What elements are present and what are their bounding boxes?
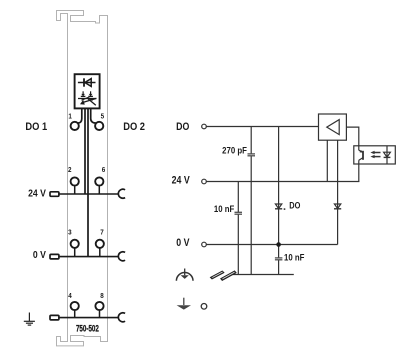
- terminal 2: [71, 177, 79, 185]
- branch B: DO to shield, 270pF: [250, 127, 252, 154]
- label 270 pF: [222, 145, 247, 156]
- branch C: DO - suppressor diode - 0V - 10nF - shield: [278, 127, 280, 258]
- wire pin1 from box to terminal 1: [78, 108, 82, 123]
- svg-text:DO: DO: [289, 200, 300, 211]
- 24V rail: [59, 193, 119, 195]
- svg-text:6: 6: [102, 167, 106, 175]
- shield earth symbol: [176, 269, 193, 281]
- diode D2: [334, 204, 340, 209]
- svg-text:5: 5: [101, 113, 105, 121]
- label DO (diode): [289, 200, 300, 211]
- branch A: 24V to shield, 10nF: [237, 182, 239, 213]
- legend terminal circle: [201, 304, 207, 310]
- svg-text:1: 1: [68, 113, 72, 121]
- pin numbers: [68, 113, 105, 300]
- diode DO: [275, 204, 281, 209]
- optocoupler box: [354, 146, 396, 164]
- svg-text:10 nF: 10 nF: [214, 203, 234, 214]
- driver triangle: [327, 120, 339, 135]
- phototransistor: [359, 146, 363, 182]
- svg-text:4: 4: [68, 293, 72, 301]
- terminal 7: [96, 240, 104, 248]
- opto LED: [384, 146, 391, 164]
- wire inner right to 0V rail: [87, 108, 89, 256]
- wire inner left to 24V rail: [84, 108, 86, 194]
- terminal 3: [71, 240, 79, 248]
- terminal 1: [71, 122, 79, 130]
- svg-text:0 V: 0 V: [33, 249, 47, 261]
- capacitor 10nF (C): [275, 258, 283, 260]
- wire pin5 from box to terminal 5: [91, 108, 97, 123]
- 0V rail: [59, 256, 119, 258]
- 0V terminal: [202, 242, 207, 247]
- svg-text:10 nF: 10 nF: [284, 252, 304, 263]
- 0V jumper contact arc: [118, 252, 125, 261]
- earth jumper contact arc: [118, 313, 125, 322]
- svg-text:DO: DO: [176, 121, 189, 133]
- DO line: [206, 126, 318, 128]
- functional earth arrow: [177, 298, 191, 310]
- diode in box: [78, 78, 96, 86]
- label DO 1: [25, 121, 47, 133]
- driver box U1: [319, 114, 347, 140]
- 24V plug: [50, 192, 59, 197]
- svg-text:3: 3: [68, 229, 72, 237]
- label DO right: [176, 121, 189, 133]
- terminal 6: [95, 177, 103, 185]
- junction node 0V: [276, 242, 281, 247]
- label 750-502: [76, 324, 99, 334]
- LED/diode box: [75, 74, 100, 108]
- svg-text:24 V: 24 V: [28, 188, 46, 200]
- 0V line: [206, 244, 337, 246]
- diode label dot: [284, 208, 286, 210]
- terminal 8: [95, 302, 103, 310]
- 24V line: [206, 181, 359, 183]
- 24V jumper contact arc: [118, 189, 125, 198]
- svg-text:0 V: 0 V: [176, 237, 190, 249]
- capacitor 270pF: [248, 154, 256, 156]
- label 10 nF (C): [284, 252, 304, 263]
- earth plug: [50, 315, 59, 320]
- label 10 nF (A): [214, 203, 234, 214]
- earth rail: [59, 317, 119, 319]
- shield bar: [232, 274, 294, 276]
- svg-text:8: 8: [100, 293, 104, 301]
- svg-text:DO 2: DO 2: [123, 121, 145, 133]
- status LEDs in box: [78, 91, 97, 105]
- diode branch from driver: [337, 140, 339, 244]
- label 24 V right: [172, 174, 190, 186]
- svg-text:270 pF: 270 pF: [222, 145, 247, 156]
- opto light arrows: [370, 151, 380, 159]
- svg-text:DO 1: DO 1: [25, 121, 47, 133]
- DO terminal: [202, 124, 207, 129]
- terminal 4: [71, 302, 79, 310]
- label 24 V left: [28, 188, 46, 200]
- terminal 5: [95, 122, 103, 130]
- label DO 2: [123, 121, 145, 133]
- capacitor 10nF (A): [235, 212, 243, 214]
- svg-text:750-502: 750-502: [76, 324, 99, 334]
- svg-text:7: 7: [100, 229, 104, 237]
- label 0 V left: [33, 249, 47, 261]
- svg-text:2: 2: [68, 167, 72, 175]
- module outline 750-502: [57, 11, 108, 346]
- earth symbol left of terminal 4: [24, 313, 35, 326]
- 24V terminal: [202, 179, 207, 184]
- DIN rail symbol: [210, 271, 236, 280]
- svg-text:24 V: 24 V: [172, 174, 190, 186]
- 0V plug: [50, 254, 59, 259]
- wire driver out to opto: [346, 127, 358, 146]
- label 0 V right: [176, 237, 190, 249]
- driver supply pin: [326, 140, 328, 181]
